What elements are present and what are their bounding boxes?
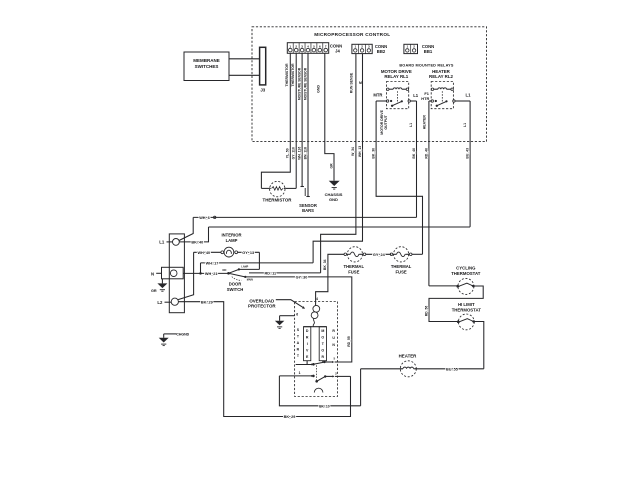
wire lamp return drop to door switch xyxy=(258,252,260,269)
relay RL1 (motor drive relay, coil + contact) xyxy=(386,82,410,109)
svg-text:RD_40: RD_40 xyxy=(424,148,428,159)
label L1 (RL1 contact) xyxy=(413,93,419,98)
svg-text:6: 6 xyxy=(296,312,298,316)
svg-text:BU_43: BU_43 xyxy=(466,148,470,159)
wire label BK_30 xyxy=(372,148,376,159)
svg-text:RELAY RL1: RELAY RL1 xyxy=(384,74,408,79)
motor assembly (dashed enclosure) xyxy=(295,302,338,397)
label motor terminal 4 xyxy=(316,297,318,301)
wire label WH_17 xyxy=(206,262,219,266)
svg-text:WH_17: WH_17 xyxy=(206,262,219,266)
wire J4-7 to chassis ground xyxy=(325,53,334,181)
motor switch mechanical link xyxy=(315,365,317,380)
terminal L2 (circle) xyxy=(171,298,178,305)
label THERMAL FUSE (TF2) xyxy=(391,264,412,274)
net label GND (J4 pin7) xyxy=(316,85,320,93)
label CONN BB2 xyxy=(375,44,387,54)
svg-text:OUTPUT: OUTPUT xyxy=(384,114,388,129)
wire neutral sense riser xyxy=(200,263,202,274)
wire label BK_29 (bottom) xyxy=(284,415,296,419)
wire RL2 L1 to L1 bus 2 xyxy=(469,101,471,227)
svg-text:L2: L2 xyxy=(157,300,163,305)
svg-text:FUSE: FUSE xyxy=(396,269,407,274)
wire label WH_40 xyxy=(197,251,210,255)
cycling thermostat xyxy=(456,278,474,294)
ground stub at neutral xyxy=(161,279,163,284)
wire N to door switch xyxy=(183,272,228,274)
wire lamp return xyxy=(238,251,260,253)
net label THERMISTOR (J4 pin1) xyxy=(285,63,289,87)
label MICROPROCESSOR CONTROL xyxy=(314,32,390,37)
wire overload to windings xyxy=(313,319,314,327)
svg-text:DOOR: DOOR xyxy=(229,282,242,287)
overload protector pointer xyxy=(276,300,305,309)
svg-text:THERMISTOR: THERMISTOR xyxy=(291,63,295,87)
label MOTOR (stacked) xyxy=(321,329,324,359)
wire motor terminal 1 return to heater xyxy=(279,376,360,406)
svg-text:I: I xyxy=(307,342,308,346)
svg-text:CYCLING: CYCLING xyxy=(456,266,476,271)
label CHASSIS GND xyxy=(325,192,343,202)
thermal fuse TF1 xyxy=(344,247,366,262)
svg-text:CHGND: CHGND xyxy=(176,332,189,336)
label HEATER xyxy=(399,353,418,358)
motor centrifugal switch (run contact) xyxy=(296,361,338,366)
wire label GY_30 xyxy=(296,275,308,279)
svg-text:L1: L1 xyxy=(466,92,472,97)
svg-text:MOISTURE SENSOR: MOISTURE SENSOR xyxy=(297,67,301,100)
svg-text:MTR: MTR xyxy=(373,93,382,98)
svg-text:THERMOSTAT: THERMOSTAT xyxy=(452,308,482,313)
wire L1 bus (lower, terminal L1 to RL2) xyxy=(209,226,471,228)
wire between thermal fuses xyxy=(366,253,391,255)
chassis ground (cabinet) xyxy=(159,334,177,346)
wire label BK_10 xyxy=(319,404,330,408)
thermistor xyxy=(261,181,296,196)
wire label RD_56 xyxy=(424,306,428,317)
label THERMAL FUSE (TF1) xyxy=(344,264,365,274)
svg-text:GY_24: GY_24 xyxy=(373,253,386,257)
wire label GY_110 xyxy=(292,147,296,159)
label BOARD MOUNTED RELAYS xyxy=(399,64,454,68)
motor centrifugal actuator arc xyxy=(314,388,323,392)
wire RL2 contact right stub xyxy=(455,100,470,102)
svg-text:W_34: W_34 xyxy=(351,147,355,156)
svg-text:BK_10: BK_10 xyxy=(319,404,330,408)
wire membrane switches to J3 (lower) xyxy=(229,74,260,76)
net label MOISTURE SENSOR (J4 pin4) xyxy=(303,67,307,100)
label INTERIOR LAMP xyxy=(221,233,241,243)
svg-text:HEATER: HEATER xyxy=(423,115,427,130)
label THERMISTOR xyxy=(263,197,293,202)
wire RL2 HTR to cycling thermostat xyxy=(428,101,430,286)
wire J4-1 to thermistor left xyxy=(261,53,290,188)
svg-text:N: N xyxy=(151,271,154,276)
svg-text:GND: GND xyxy=(316,85,320,93)
label RUN (stacked) xyxy=(332,329,335,347)
svg-text:RD_56: RD_56 xyxy=(424,306,428,317)
wire label WH_21 xyxy=(205,272,218,276)
wire label WH_6 and splice xyxy=(199,216,216,220)
svg-text:RELAY RL2: RELAY RL2 xyxy=(429,74,453,79)
svg-text:GND: GND xyxy=(329,197,338,202)
svg-text:THERMISTOR: THERMISTOR xyxy=(285,63,289,87)
wire label BN_118 xyxy=(303,147,307,159)
wire label W_34 xyxy=(351,147,355,156)
wire label GR xyxy=(330,163,334,169)
svg-text:RUN SENSE: RUN SENSE xyxy=(349,72,353,93)
net label MOISTURE SENSOR (J4 pin3) xyxy=(297,67,301,100)
svg-text:R: R xyxy=(297,348,300,352)
svg-text:WH_116: WH_116 xyxy=(297,147,301,160)
svg-text:R: R xyxy=(322,355,325,359)
svg-text:WH_21: WH_21 xyxy=(205,272,218,276)
wire label BK_40 (RL1 L1) xyxy=(412,148,416,159)
net label HEATER (RL2 output) xyxy=(423,115,427,130)
wire membrane switches to J3 (upper) xyxy=(229,58,260,60)
wire label GY_24 xyxy=(373,253,386,257)
wire motor frame to ground xyxy=(280,316,295,321)
wire door switch to run sense xyxy=(249,272,321,274)
relay RL2 (heater relay, coil + contact) xyxy=(431,82,455,109)
svg-text:LAMP: LAMP xyxy=(241,266,248,269)
wire label BK_40 (L1 feed) xyxy=(191,240,203,244)
svg-text:J3: J3 xyxy=(260,88,265,93)
svg-text:J4: J4 xyxy=(335,49,340,54)
svg-text:WH_40: WH_40 xyxy=(197,251,210,255)
svg-text:THERMISTOR: THERMISTOR xyxy=(263,197,293,202)
wire lamp feed xyxy=(194,251,221,253)
svg-text:LAMP: LAMP xyxy=(226,238,238,243)
svg-text:D: D xyxy=(306,329,309,333)
wire label RD_40 xyxy=(424,148,428,159)
hi limit thermostat xyxy=(457,314,475,330)
wire RL1 L1 to L1 bus xyxy=(416,101,418,217)
svg-text:HI LIMIT: HI LIMIT xyxy=(458,302,475,307)
svg-text:SWITCH: SWITCH xyxy=(227,287,244,292)
svg-text:GY_110: GY_110 xyxy=(292,147,296,159)
ground symbol (motor) xyxy=(275,321,285,329)
svg-text:BOARD MOUNTED RELAYS: BOARD MOUNTED RELAYS xyxy=(399,64,454,68)
motor start winding xyxy=(304,327,311,361)
svg-text:MICROPROCESSOR CONTROL: MICROPROCESSOR CONTROL xyxy=(314,32,390,37)
svg-text:OVERLOAD: OVERLOAD xyxy=(249,298,274,303)
wire BB2-2 M to neutral sense xyxy=(313,54,362,263)
wire label YL_50 xyxy=(286,148,290,158)
svg-text:U: U xyxy=(332,336,335,340)
label DRIVE (stacked) xyxy=(306,329,309,359)
wire hi-limit to heater xyxy=(475,322,484,369)
net label M (BB2 pin2) xyxy=(359,81,362,85)
svg-text:4: 4 xyxy=(316,297,318,301)
svg-text:PROTECTOR: PROTECTOR xyxy=(248,304,276,309)
svg-text:A: A xyxy=(297,341,300,345)
label L2 (terminal) xyxy=(157,300,171,305)
motor overload (double circle) xyxy=(311,305,319,318)
wire heater left stub xyxy=(361,368,401,370)
heater element xyxy=(400,361,416,377)
label GR xyxy=(151,289,157,293)
membrane switches block xyxy=(184,52,229,81)
svg-text:MAIN: MAIN xyxy=(247,278,253,281)
wire heater left feed riser xyxy=(360,369,362,406)
door switch xyxy=(222,266,259,282)
wire cycling thermostat to hi-limit xyxy=(429,286,483,322)
svg-text:BK_34: BK_34 xyxy=(323,259,327,270)
label OVERLOAD PROTECTOR xyxy=(248,298,276,308)
label CONN J4 xyxy=(330,44,342,54)
motor start switch (contact 1-2) xyxy=(279,375,350,383)
wire label BK_29 (at L2) xyxy=(201,300,213,304)
label F1 HTR xyxy=(421,91,429,101)
svg-text:N: N xyxy=(332,343,335,347)
label CHGND xyxy=(176,332,189,336)
wire J4-4 to sensor bar 2 xyxy=(306,53,309,196)
wire label WH_13 xyxy=(358,146,362,157)
label MOTOR DRIVE RELAY RL1 xyxy=(381,69,412,79)
svg-text:RD_11: RD_11 xyxy=(264,271,276,275)
svg-text:BU_55: BU_55 xyxy=(446,367,458,371)
wire label BU_55 xyxy=(446,367,458,371)
svg-text:BK_30: BK_30 xyxy=(372,148,376,159)
label L1 (terminal) xyxy=(159,240,172,245)
thermal fuse TF2 xyxy=(390,247,412,262)
connector CONN J4 xyxy=(287,43,328,54)
microprocessor control board (dashed enclosure) xyxy=(252,27,487,142)
label DOOR SWITCH xyxy=(227,282,244,292)
wire start winding to switch xyxy=(306,361,308,365)
wire J4-2 to thermistor right xyxy=(295,53,297,188)
wire L1 diagonal riser to upper bus xyxy=(179,217,193,240)
wire label BU_43 xyxy=(466,148,470,159)
wire L1 bus (upper, terminal L1 to RL1) xyxy=(193,216,416,218)
label motor terminal 1 xyxy=(299,371,301,375)
svg-text:WH_6: WH_6 xyxy=(199,216,210,220)
interior lamp xyxy=(221,247,238,257)
terminal L1 (circle) xyxy=(173,239,180,246)
sensor bar middle plate xyxy=(304,188,306,196)
label HEATER RELAY RL2 xyxy=(429,69,453,79)
svg-text:BK_40: BK_40 xyxy=(191,240,203,244)
svg-text:BK_29: BK_29 xyxy=(201,300,213,304)
svg-text:YL_50: YL_50 xyxy=(286,148,290,158)
svg-text:R: R xyxy=(332,329,335,333)
net label L1 (RL2 output) xyxy=(463,123,467,127)
svg-text:L1: L1 xyxy=(159,240,165,245)
wire door switch to motor centrifugal switch xyxy=(245,277,351,362)
net label THERMISTOR (J4 pin2) xyxy=(291,63,295,87)
wire BB2-1 RUN SENSE to door switch node xyxy=(321,54,356,273)
wire label WH_116 xyxy=(297,147,301,160)
label SENSOR BARS xyxy=(299,203,317,213)
net label L1 (RL1 output) xyxy=(409,123,413,127)
svg-text:GR: GR xyxy=(151,289,157,293)
svg-text:L1: L1 xyxy=(413,93,419,98)
svg-text:R: R xyxy=(306,335,309,339)
svg-text:M: M xyxy=(359,81,362,85)
terminal block body xyxy=(169,234,184,313)
wire J4-3 to sensor bar 1 xyxy=(301,53,304,186)
svg-text:HEATER: HEATER xyxy=(399,353,418,358)
label HI LIMIT THERMOSTAT xyxy=(452,302,482,312)
neutral terminal box xyxy=(162,267,184,279)
wire label GY_13 xyxy=(242,251,254,255)
wire label BK_34 xyxy=(323,259,327,270)
label L1 (RL2 contact) xyxy=(466,92,472,97)
svg-text:GY_30: GY_30 xyxy=(296,275,308,279)
wire RL2 contact left stub xyxy=(429,100,431,102)
svg-text:SWITCHES: SWITCHES xyxy=(195,64,219,69)
ground symbol GR (neutral) xyxy=(157,283,167,291)
chassis ground symbol xyxy=(329,181,340,189)
wire label RD_55 xyxy=(347,336,351,347)
svg-text:BB2: BB2 xyxy=(377,49,386,54)
wire run winding to switch xyxy=(322,361,324,362)
connector J3 xyxy=(260,47,266,92)
wire thermal fuse 1 to motor xyxy=(316,254,344,305)
wire RL1 contact left stub xyxy=(376,100,386,102)
wire HTR to cycling thermostat xyxy=(429,285,457,287)
motor run winding xyxy=(319,327,326,361)
svg-text:GY_13: GY_13 xyxy=(242,251,254,255)
label CONN BB1 xyxy=(422,44,434,54)
svg-text:O: O xyxy=(321,335,324,339)
svg-text:BARS: BARS xyxy=(302,208,314,213)
svg-text:THERMOSTAT: THERMOSTAT xyxy=(451,271,481,276)
svg-text:M: M xyxy=(321,329,324,333)
svg-text:MEMBRANE: MEMBRANE xyxy=(193,58,220,63)
svg-text:BK_29: BK_29 xyxy=(284,415,296,419)
wire L2 diagonal riser to interior lamp xyxy=(178,252,194,299)
wire RL1 MTR output to thermal fuse 2 xyxy=(376,101,422,254)
svg-text:BB1: BB1 xyxy=(424,49,433,54)
label motor terminal 2 xyxy=(335,372,337,376)
wire WH_17 neutral sense xyxy=(201,262,314,264)
label START (stacked) xyxy=(297,328,300,358)
svg-text:O: O xyxy=(321,348,324,352)
label MTR xyxy=(373,93,382,98)
label N (terminal) xyxy=(151,271,161,276)
svg-text:L1: L1 xyxy=(463,123,467,127)
svg-text:FUSE: FUSE xyxy=(348,269,359,274)
svg-text:L1: L1 xyxy=(409,123,413,127)
svg-text:NO: NO xyxy=(222,268,226,272)
net label MOTOR DRIVE OUTPUT xyxy=(380,109,388,134)
svg-text:WH_13: WH_13 xyxy=(358,146,362,157)
svg-text:GR: GR xyxy=(330,163,334,169)
wire heater to hi-limit riser xyxy=(416,368,484,370)
terminal N (circle) xyxy=(170,270,177,277)
svg-text:MOISTURE SENSOR: MOISTURE SENSOR xyxy=(303,67,307,100)
label CYCLING THERMOSTAT xyxy=(451,266,481,276)
label motor terminal 6 xyxy=(296,312,298,316)
motor winding bus xyxy=(304,326,327,328)
wire thermal fuse 2 right stub xyxy=(412,253,423,255)
svg-text:BK_40: BK_40 xyxy=(412,148,416,159)
wire RL1 contact right stub xyxy=(410,100,416,102)
net label RUN SENSE (BB2 pin1) xyxy=(349,72,353,93)
wire L1 to lower bus xyxy=(179,227,208,242)
connector CONN BB1 xyxy=(404,44,418,53)
svg-text:BN_118: BN_118 xyxy=(303,147,307,159)
wire label RD_11 xyxy=(264,271,276,275)
wire L2 to motor (bottom return) xyxy=(178,302,350,417)
svg-text:1: 1 xyxy=(299,371,301,375)
svg-text:RD_55: RD_55 xyxy=(347,336,351,347)
svg-text:HTR: HTR xyxy=(421,96,429,101)
connector CONN BB2 xyxy=(352,44,372,53)
label motor terminal 5 xyxy=(333,356,335,360)
junction neutral tap xyxy=(199,272,202,275)
